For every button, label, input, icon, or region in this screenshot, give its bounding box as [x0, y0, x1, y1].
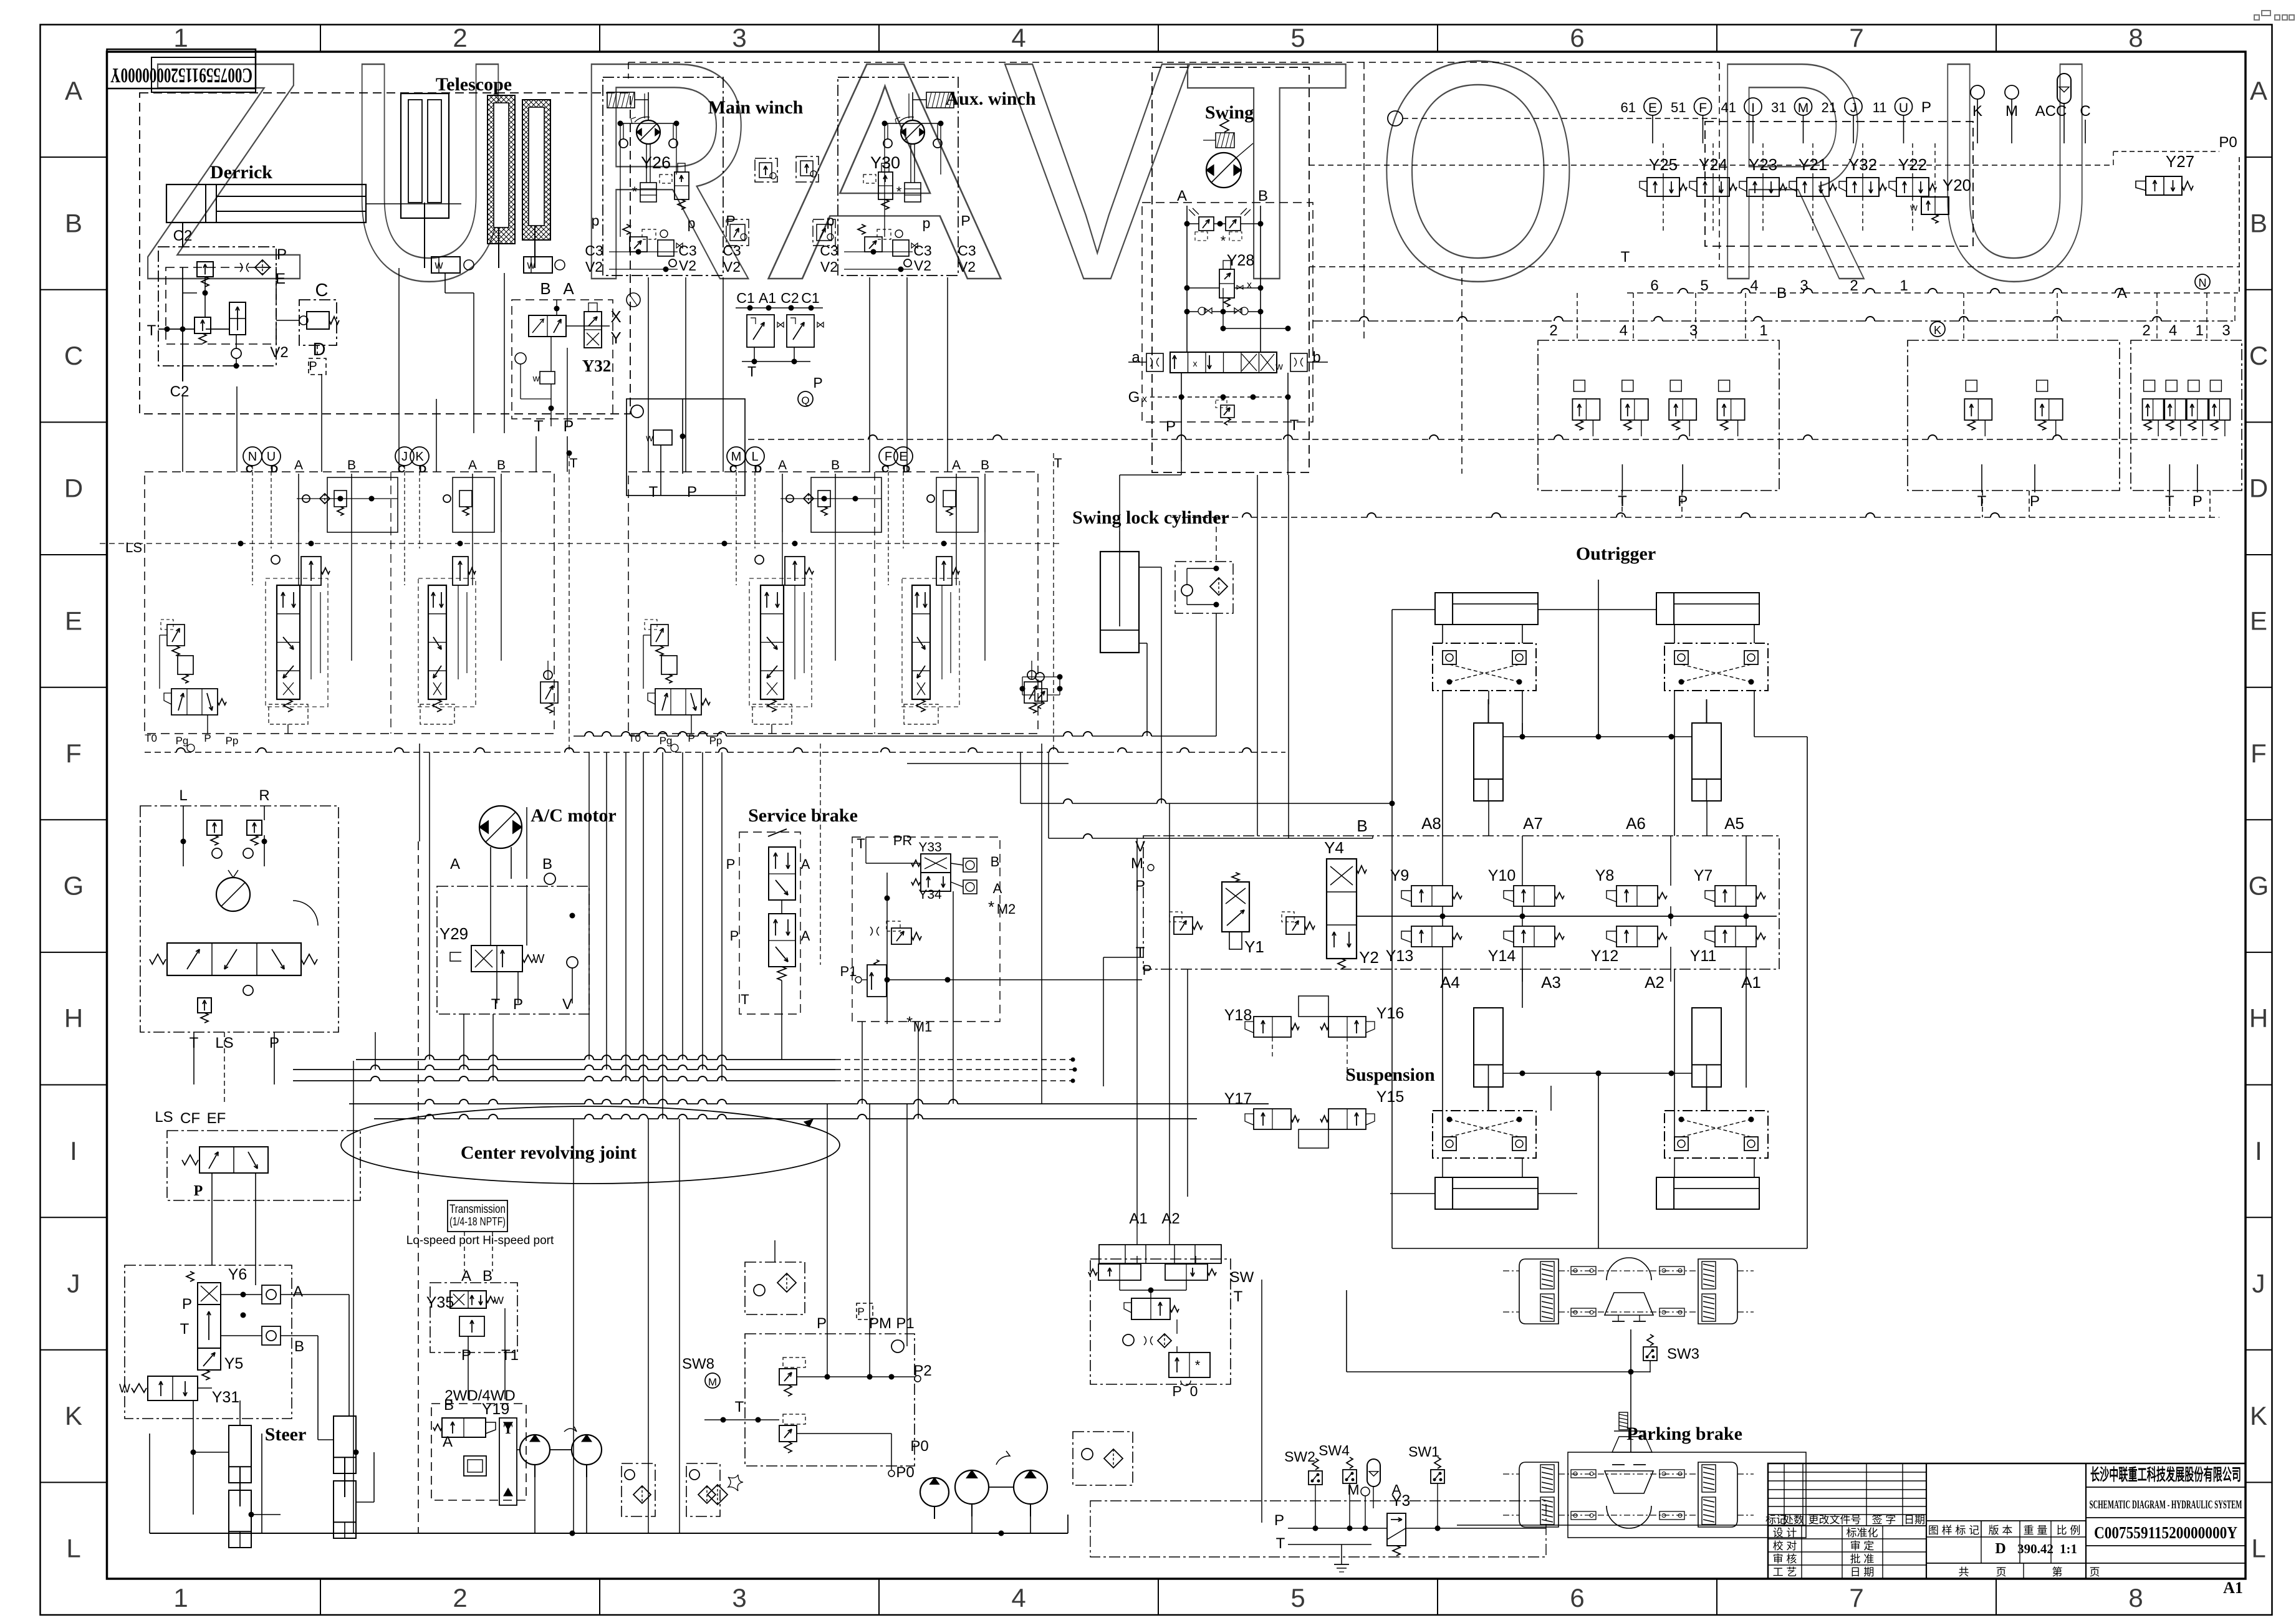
- Aux. winch internal wires: [844, 251, 913, 252]
- Main winch drum shaft: [646, 144, 647, 183]
- svg-text:p: p: [923, 215, 931, 231]
- svg-text:Y22: Y22: [1898, 155, 1927, 174]
- svg-text:LS: LS: [125, 540, 142, 555]
- control valve pair enclosure 1: [145, 472, 554, 734]
- outrigger bottom locks: [1433, 1111, 1536, 1158]
- pilot circles E F I M J U: [1644, 98, 1661, 115]
- wire C2 bottom: [182, 366, 183, 381]
- svg-text:P1: P1: [896, 1315, 914, 1332]
- check valve: [515, 353, 526, 364]
- svg-text:第: 第: [2052, 1566, 2063, 1578]
- axle reducing valve: [1131, 1298, 1170, 1319]
- svg-text:a: a: [1131, 349, 1140, 366]
- svg-text:C2: C2: [781, 290, 799, 306]
- swing lock check-filter box: [1175, 562, 1233, 613]
- svg-text:x: x: [1142, 394, 1147, 405]
- svg-text:x: x: [1193, 358, 1198, 368]
- svg-text:X: X: [610, 307, 621, 326]
- svg-text:A1: A1: [759, 290, 776, 306]
- svg-text:C00755911520000000Y: C00755911520000000Y: [2094, 1523, 2237, 1542]
- main control valve section FE: [879, 447, 898, 466]
- shift valve box: [430, 1283, 517, 1352]
- svg-text:2: 2: [453, 1583, 467, 1612]
- svg-text:T: T: [1977, 493, 1987, 510]
- svg-text:CF: CF: [180, 1110, 200, 1127]
- pilot drop lines: [1577, 293, 1578, 340]
- svg-text:P: P: [688, 732, 694, 744]
- svg-text:页: 页: [1996, 1566, 2007, 1578]
- suction rail: [150, 1533, 1068, 1534]
- svg-text:设 计: 设 计: [1773, 1527, 1797, 1539]
- parking brake routing: [1346, 1290, 1347, 1372]
- svg-text:F: F: [2250, 739, 2267, 768]
- brake filter box: [745, 1262, 805, 1314]
- svg-text:*: *: [906, 1013, 913, 1032]
- svg-text:Y34: Y34: [918, 888, 942, 902]
- svg-text:P: P: [204, 732, 211, 744]
- svg-text:批 准: 批 准: [1850, 1553, 1875, 1565]
- svg-text:日 期: 日 期: [1850, 1566, 1875, 1578]
- svg-text:T: T: [570, 456, 578, 471]
- svg-text:W: W: [119, 1382, 130, 1396]
- svg-text:4: 4: [1011, 23, 1026, 52]
- watermark ZURAVTO.RU outline letters: [139, 0, 2100, 345]
- svg-text:Steer: Steer: [265, 1424, 307, 1445]
- svg-text:U: U: [267, 450, 276, 464]
- svg-text:L: L: [66, 1534, 80, 1563]
- svg-text:更改文件号: 更改文件号: [1808, 1514, 1861, 1526]
- svg-text:D: D: [1995, 1541, 2005, 1557]
- accumulator A: [1367, 1459, 1380, 1487]
- svg-text:2: 2: [453, 23, 467, 52]
- svg-text:K: K: [2250, 1401, 2267, 1430]
- outrigger top cylinders: [1435, 593, 1538, 625]
- pressure switch SW3: [1643, 1347, 1657, 1361]
- orifice: [240, 263, 249, 272]
- svg-text:Lo-speed port Hi-speed port: Lo-speed port Hi-speed port: [406, 1234, 554, 1247]
- svg-text:A4: A4: [1440, 973, 1460, 992]
- ports B A: [963, 858, 977, 872]
- main control valve inlet section NU: [243, 447, 262, 466]
- svg-text:Y: Y: [610, 328, 621, 347]
- pump supply dashed bus: [145, 752, 176, 753]
- svg-text:Derrick: Derrick: [210, 162, 272, 183]
- telescope cylinder 1: [401, 93, 449, 218]
- svg-text:T0: T0: [145, 732, 157, 744]
- svg-text:31: 31: [1771, 100, 1786, 115]
- swing lock cylinder: [1100, 552, 1139, 653]
- svg-text:T: T: [747, 363, 756, 380]
- svg-text:21: 21: [1822, 100, 1837, 115]
- outrigger jack cylinders upper: [1474, 723, 1503, 801]
- svg-text:A: A: [993, 881, 1002, 896]
- pilot line from bank to suspension: [1187, 969, 1188, 1197]
- drawing number box (rotated): [107, 49, 256, 89]
- svg-text:共: 共: [1959, 1566, 1969, 1578]
- svg-text:Transmission: Transmission: [449, 1203, 506, 1216]
- svg-text:B: B: [981, 458, 989, 472]
- svg-text:G: G: [2249, 871, 2269, 901]
- svg-text:P: P: [730, 928, 739, 944]
- svg-text:页: 页: [2090, 1566, 2100, 1578]
- svg-text:A: A: [801, 928, 810, 944]
- svg-text:A5: A5: [1724, 814, 1744, 833]
- lower axle enclosure: [1568, 1452, 1806, 1538]
- svg-text:A6: A6: [1626, 814, 1646, 833]
- svg-text:审 核: 审 核: [1773, 1553, 1797, 1565]
- valve group at 2467: [1538, 340, 1779, 491]
- accumulator ACC: [2057, 74, 2071, 103]
- svg-text:Suspension: Suspension: [1345, 1065, 1435, 1085]
- svg-text:SW4: SW4: [1319, 1442, 1350, 1458]
- steering control valve: [167, 943, 301, 975]
- steering metering motor: [216, 878, 250, 911]
- svg-text:P0: P0: [896, 1464, 914, 1481]
- svg-text:P: P: [277, 246, 287, 263]
- svg-text:A: A: [1177, 188, 1187, 204]
- svg-text:0: 0: [1190, 1383, 1198, 1399]
- steer check valves: [262, 1285, 281, 1304]
- swing motor: [1206, 153, 1241, 188]
- svg-text:C2: C2: [173, 227, 193, 244]
- svg-text:A: A: [461, 1268, 471, 1285]
- svg-text:A: A: [443, 1434, 453, 1450]
- svg-text:A1: A1: [2223, 1579, 2243, 1597]
- svg-text:T0: T0: [628, 732, 641, 744]
- svg-text:SW: SW: [1230, 1269, 1254, 1286]
- brake pedal enclosure: [739, 832, 800, 1014]
- main control valve section JK: [395, 447, 414, 466]
- svg-text:PM: PM: [869, 1315, 891, 1332]
- svg-text:LS: LS: [155, 1109, 173, 1126]
- swing enclosure: [1152, 67, 1309, 472]
- hydraulic bus lines: [356, 1059, 425, 1060]
- svg-text:C: C: [246, 463, 253, 475]
- line B to outrigger: [1391, 610, 1393, 1248]
- svg-text:Pp: Pp: [226, 735, 239, 747]
- svg-text:L: L: [179, 787, 187, 804]
- svg-text:Main winch: Main winch: [708, 97, 804, 118]
- svg-text:1:1: 1:1: [2060, 1541, 2077, 1556]
- row D dashed bus: [1313, 320, 1360, 322]
- Main winch counterbalance valve Y: [675, 172, 689, 199]
- Main winch brake cylinder: [607, 92, 635, 108]
- svg-text:G: G: [1128, 389, 1140, 406]
- svg-text:H: H: [2249, 1003, 2268, 1033]
- svg-text:M2: M2: [997, 901, 1016, 917]
- svg-text:E: E: [899, 450, 907, 464]
- svg-text:T: T: [735, 1399, 744, 1415]
- svg-text:Y30: Y30: [870, 153, 900, 172]
- swing inner box: [1142, 203, 1313, 422]
- svg-text:A8: A8: [1421, 814, 1441, 833]
- Aux. winch lower valve cluster: [858, 224, 865, 234]
- svg-text:Swing: Swing: [1205, 102, 1254, 123]
- brake charge box: [745, 1334, 915, 1466]
- LS dashed rail: [100, 543, 1060, 544]
- vertical bundle below valve blocks: [588, 752, 590, 1060]
- Main winch motor ports: [618, 121, 623, 127]
- svg-text:8: 8: [2128, 23, 2143, 52]
- svg-text:Y4: Y4: [1324, 838, 1344, 857]
- right filter box: [1073, 1432, 1133, 1485]
- svg-text:P: P: [726, 213, 735, 229]
- svg-text:w: w: [532, 373, 540, 384]
- svg-text:Y9: Y9: [1390, 867, 1410, 884]
- Aux. winch brake cylinder: [926, 92, 954, 108]
- swing anti-cavitation checks: [1204, 308, 1212, 314]
- svg-text:Y26: Y26: [641, 153, 671, 172]
- return filter 2: [686, 1463, 720, 1516]
- gauge circle Q top: [1388, 111, 1403, 126]
- svg-text:P: P: [857, 1306, 864, 1318]
- svg-text:A: A: [952, 458, 961, 472]
- svg-text:V2: V2: [914, 257, 931, 274]
- svg-text:Center revolving joint: Center revolving joint: [461, 1142, 636, 1163]
- charge valve 1: [779, 1369, 797, 1385]
- svg-text:P0: P0: [2219, 134, 2237, 151]
- svg-text:A3: A3: [1541, 973, 1561, 992]
- axle check orifice filter: [1123, 1334, 1134, 1346]
- axle brake valve: [1169, 1352, 1210, 1377]
- svg-text:P: P: [1172, 1383, 1181, 1399]
- svg-text:C2: C2: [170, 383, 190, 400]
- svg-text:V: V: [1135, 838, 1145, 855]
- pilot check relief: [1035, 673, 1044, 681]
- svg-text:T: T: [857, 836, 865, 851]
- svg-text:5: 5: [1290, 1583, 1305, 1612]
- svg-text:C3: C3: [913, 242, 931, 259]
- svg-text:5: 5: [1700, 277, 1708, 294]
- svg-text:*: *: [988, 898, 994, 916]
- svg-text:51: 51: [1671, 100, 1686, 115]
- selector block enclosure: [512, 300, 613, 419]
- svg-text:P: P: [1143, 962, 1152, 978]
- svg-text:Pg: Pg: [176, 735, 189, 747]
- svg-text:D: D: [754, 463, 762, 475]
- svg-text:Pg: Pg: [660, 735, 673, 747]
- svg-text:Y21: Y21: [1799, 155, 1827, 174]
- svg-text:B: B: [2250, 208, 2267, 237]
- svg-text:C: C: [2080, 103, 2090, 120]
- svg-text:4: 4: [1750, 277, 1758, 294]
- svg-text:w: w: [1275, 361, 1283, 372]
- svg-text:A7: A7: [1523, 814, 1543, 833]
- svg-text:Y17: Y17: [1224, 1090, 1252, 1108]
- upper dashed return bus: [748, 439, 868, 440]
- svg-text:V2: V2: [585, 259, 603, 275]
- wheel brake block: [1519, 1259, 1559, 1324]
- control valve pair enclosure 2: [628, 472, 1038, 734]
- svg-text:M: M: [708, 1376, 717, 1388]
- suspension manifold enclosure: [1143, 836, 1779, 969]
- svg-text:(1/4-18 NPTF): (1/4-18 NPTF): [449, 1215, 506, 1228]
- svg-text:SW1: SW1: [1408, 1443, 1439, 1460]
- svg-text:工 艺: 工 艺: [1773, 1566, 1797, 1578]
- svg-text:C3: C3: [585, 242, 603, 259]
- svg-text:11: 11: [1873, 100, 1887, 115]
- feed lines from actuators to valve blocks: [182, 396, 183, 472]
- Aux. winch counterbalance valve Y: [878, 172, 893, 199]
- svg-text:E: E: [65, 606, 82, 635]
- pilot bank enclosure: [1705, 122, 1973, 246]
- svg-text:C: C: [315, 280, 329, 300]
- svg-text:C: C: [64, 341, 83, 370]
- svg-text:Y12: Y12: [1591, 947, 1618, 965]
- svg-text:A1: A1: [1129, 1210, 1147, 1227]
- svg-text:2: 2: [2142, 322, 2150, 339]
- swing control valve: [1170, 352, 1277, 373]
- svg-text:L: L: [751, 450, 758, 464]
- svg-text:E: E: [1648, 101, 1657, 115]
- title block: [1768, 1463, 2246, 1579]
- outrigger jack cylinders lower: [1474, 1008, 1503, 1087]
- brake control enclosure: [852, 837, 1000, 1022]
- svg-text:4: 4: [2169, 322, 2177, 339]
- A/C motor circle: [479, 806, 522, 848]
- svg-text:B: B: [444, 1397, 454, 1414]
- svg-text:A: A: [563, 279, 574, 298]
- Aux. winch motor ports: [882, 121, 888, 127]
- svg-text:Pp: Pp: [709, 735, 723, 747]
- svg-text:V2: V2: [723, 259, 741, 275]
- svg-text:K: K: [1934, 324, 1941, 337]
- relief valve mid: [1286, 917, 1305, 934]
- svg-text:1: 1: [1759, 322, 1767, 339]
- long dashed to P0: [1309, 165, 2113, 166]
- svg-text:Y19: Y19: [482, 1400, 509, 1418]
- svg-text:B: B: [497, 458, 506, 472]
- svg-text:I: I: [2255, 1136, 2262, 1166]
- svg-text:Y31: Y31: [212, 1389, 239, 1406]
- svg-text:处数: 处数: [1783, 1514, 1804, 1526]
- svg-text:C3: C3: [958, 242, 976, 259]
- valve Y32 solenoid: [584, 312, 602, 348]
- Aux. winch drum shaft: [910, 144, 911, 183]
- svg-text:J: J: [1850, 101, 1857, 115]
- A1 A2 risers: [1136, 838, 1138, 1227]
- wires derrick: [182, 267, 183, 366]
- svg-text:T: T: [1276, 1535, 1285, 1552]
- svg-text:Y13: Y13: [1386, 947, 1413, 965]
- gauge C: [627, 293, 640, 307]
- svg-text:Y32: Y32: [582, 357, 612, 375]
- svg-text:P: P: [461, 1347, 471, 1364]
- svg-text:A: A: [468, 458, 477, 472]
- svg-text:L: L: [2251, 1534, 2265, 1563]
- svg-text:A: A: [293, 1283, 303, 1300]
- svg-text:D: D: [271, 463, 278, 475]
- svg-text:8: 8: [2128, 1583, 2143, 1612]
- valve group at 3418: [2131, 340, 2242, 491]
- svg-text:K: K: [65, 1401, 82, 1430]
- valve group at 3060: [1908, 340, 2120, 491]
- svg-text:T: T: [491, 996, 501, 1013]
- svg-text:Y24: Y24: [1699, 155, 1727, 174]
- gearbox: [464, 1456, 486, 1476]
- transmission section dashed boundary: [418, 841, 419, 1533]
- svg-text:B: B: [831, 458, 840, 472]
- svg-text:B: B: [1258, 188, 1268, 204]
- steering unit enclosure: [140, 806, 339, 1032]
- zone row ticks: [41, 156, 107, 158]
- svg-text:P2: P2: [913, 1362, 931, 1379]
- svg-text:A2: A2: [1645, 973, 1664, 992]
- parking brake actuator: [1619, 1412, 1628, 1430]
- brake shuttle valve 1: [755, 158, 777, 182]
- svg-text:Y32: Y32: [1848, 155, 1877, 174]
- svg-text:签 字: 签 字: [1872, 1514, 1896, 1526]
- svg-text:T: T: [1234, 1288, 1243, 1305]
- svg-text:T: T: [741, 992, 749, 1007]
- svg-text:Y16: Y16: [1376, 1005, 1404, 1022]
- return filter 1: [622, 1463, 655, 1516]
- axle lock valve box: [1090, 1259, 1231, 1384]
- svg-text:Y27: Y27: [2166, 152, 2194, 171]
- svg-text:T: T: [534, 418, 543, 435]
- svg-text:B: B: [483, 1268, 492, 1285]
- svg-text:B: B: [540, 279, 550, 298]
- svg-text:C1: C1: [736, 290, 754, 306]
- revolving joint ellipse: [341, 1106, 840, 1184]
- svg-text:Outrigger: Outrigger: [1576, 543, 1656, 564]
- Main winch right flow control: [726, 219, 749, 246]
- svg-text:P: P: [1135, 878, 1145, 894]
- steer valve body: [198, 1305, 221, 1348]
- svg-text:P: P: [309, 360, 317, 373]
- pressure switch P: [309, 358, 326, 375]
- svg-text:D: D: [2249, 474, 2268, 503]
- svg-text:T: T: [147, 322, 156, 339]
- svg-text:P: P: [961, 213, 970, 229]
- svg-text:T: T: [1136, 944, 1145, 961]
- svg-text:V2: V2: [270, 344, 288, 361]
- svg-text:重 量: 重 量: [2024, 1525, 2048, 1536]
- svg-text:3: 3: [732, 23, 746, 52]
- svg-text:7: 7: [1849, 23, 1863, 52]
- tandem gear pump: [520, 1435, 550, 1465]
- svg-text:H: H: [64, 1003, 83, 1033]
- svg-text:U: U: [1899, 101, 1908, 115]
- svg-text:b: b: [1312, 349, 1320, 366]
- svg-text:1: 1: [173, 23, 188, 52]
- outrigger bottom cylinders: [1435, 1177, 1538, 1209]
- Main winch lower valve cluster: [623, 224, 630, 234]
- svg-text:6: 6: [1650, 277, 1658, 294]
- swing brake spring: [1216, 133, 1234, 148]
- svg-text:P: P: [726, 856, 736, 872]
- svg-text:D: D: [64, 474, 83, 503]
- svg-text:3: 3: [732, 1583, 746, 1612]
- svg-text:B: B: [991, 854, 1000, 869]
- selector wires: [550, 337, 552, 371]
- svg-text:B: B: [294, 1338, 304, 1355]
- svg-text:390.42: 390.42: [2017, 1541, 2053, 1556]
- svg-text:B: B: [65, 208, 82, 237]
- derrick holding valve block: [158, 247, 276, 366]
- swing relief valves: [1199, 217, 1214, 231]
- T dashed drop: [820, 744, 821, 965]
- svg-text:T: T: [649, 484, 658, 500]
- svg-text:W: W: [533, 952, 545, 966]
- swing lock piping: [1139, 567, 1161, 568]
- svg-text:A: A: [801, 856, 810, 872]
- svg-text:P: P: [194, 1183, 203, 1199]
- svg-text:P0: P0: [910, 1438, 928, 1455]
- svg-text:日期: 日期: [1904, 1514, 1925, 1526]
- svg-text:Y15: Y15: [1376, 1088, 1404, 1106]
- rotation arrow: [293, 901, 318, 926]
